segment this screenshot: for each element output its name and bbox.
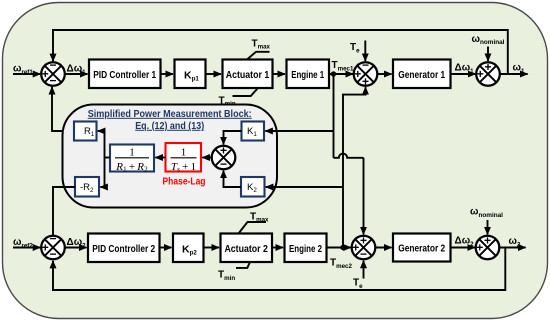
wire: bottom feedback line omega2 bbox=[53, 248, 505, 291]
block Engine 1 bbox=[287, 60, 330, 89]
svg-text:Actuator 2: Actuator 2 bbox=[224, 243, 268, 255]
wire: S4 to PID2 bbox=[65, 247, 87, 249]
wire: omega2 output bbox=[499, 247, 525, 249]
svg-text:+: + bbox=[42, 67, 49, 81]
wire: K1 to S5 bbox=[224, 131, 242, 144]
svg-text:−: − bbox=[360, 247, 367, 261]
svg-text:+: + bbox=[484, 234, 491, 248]
wire: S2 to Generator1 bbox=[377, 73, 391, 75]
wire: omega_ref1 input bbox=[13, 73, 40, 75]
wire: Tmec1 line L1 down bbox=[333, 74, 335, 158]
Tmin limit annotation actuator 1 bbox=[219, 88, 259, 108]
summing junction S5 bbox=[212, 144, 236, 171]
Tmax limit annotation actuator 1 bbox=[247, 39, 271, 60]
wire: split to R1 bbox=[98, 130, 105, 132]
svg-text:−: − bbox=[49, 74, 56, 88]
svg-text:+: + bbox=[360, 234, 367, 248]
Tmin limit annotation actuator 2 bbox=[218, 262, 250, 282]
wire: S1 to PID1 bbox=[65, 73, 88, 75]
svg-text:PID Controller 2: PID Controller 2 bbox=[92, 243, 155, 255]
svg-text:+: + bbox=[362, 75, 369, 89]
input omega_nominal bottom bbox=[470, 207, 503, 235]
wire: split to -R2 bbox=[100, 186, 104, 188]
node Tmec2 bbox=[340, 245, 345, 250]
wire: top feedback line omega1 bbox=[53, 30, 508, 74]
summing junction S6 bbox=[352, 234, 376, 261]
svg-text:+: + bbox=[477, 67, 484, 81]
wire: PID2 to Kp2 bbox=[160, 247, 172, 249]
svg-text:1: 1 bbox=[129, 146, 135, 158]
block Actuator 1 bbox=[223, 60, 273, 89]
wire: -R2 feedback to S4 top (no arrow) bbox=[53, 187, 75, 236]
svg-text:+: + bbox=[484, 60, 491, 74]
svg-text:R1 + R2: R1 + R2 bbox=[115, 161, 148, 174]
wire: Actuator1 to Engine1 bbox=[273, 73, 286, 75]
block PID Controller 2 bbox=[88, 234, 160, 263]
wire: L2 branch to K2 bbox=[266, 186, 343, 188]
wire: Generator1 to S3 bbox=[451, 73, 476, 75]
block Generator 1 bbox=[393, 60, 451, 89]
wire: L2 Tmec2 up to S2 bottom bbox=[343, 87, 366, 247]
svg-text:Generator 1: Generator 1 bbox=[398, 69, 445, 81]
summing junction S2 bbox=[354, 58, 378, 89]
wire: Engine2 to S6 with Tmec2 node bbox=[327, 247, 351, 249]
wire: Engine1 to S2 with Tmec1 node bbox=[329, 73, 353, 75]
svg-text:Eq. (12) and (13): Eq. (12) and (13) bbox=[135, 121, 204, 132]
wire: 1/(R1+R2) output split bbox=[105, 157, 111, 159]
measurement block container bbox=[63, 105, 278, 208]
input Te top bbox=[350, 41, 365, 62]
wire: phase lag to 1/(R1+R2) bbox=[155, 157, 165, 159]
wire: S6 to Generator2 bbox=[375, 247, 391, 249]
wire: R1 feedback to S1 bottom bbox=[52, 87, 74, 131]
block K1 bbox=[242, 122, 265, 141]
Tmax limit annotation actuator 2 bbox=[239, 212, 270, 234]
svg-text:+: + bbox=[352, 240, 359, 254]
block 1/(R1+R2) bbox=[110, 145, 154, 174]
wire: omega1 output bbox=[500, 73, 528, 75]
summing junction S7 bbox=[476, 234, 500, 260]
svg-text:Engine 1: Engine 1 bbox=[291, 69, 324, 81]
svg-text:PID Controller 1: PID Controller 1 bbox=[93, 69, 156, 81]
block phase lag 1/(Ts+1) bbox=[166, 143, 202, 174]
wire: Kp2 to Actuator2 bbox=[204, 247, 220, 249]
summing junction S1 bbox=[41, 58, 65, 88]
input omega_nominal top bbox=[472, 34, 505, 61]
block -R2 bbox=[75, 177, 99, 197]
wire: S5 to phase lag bbox=[202, 157, 211, 159]
svg-text:−: − bbox=[220, 157, 227, 171]
svg-text:Ts + 1: Ts + 1 bbox=[171, 161, 196, 174]
wire: omega_ref2 input bbox=[13, 247, 40, 249]
wire: Kp1 to Actuator1 bbox=[206, 73, 222, 75]
svg-text:Generator 2: Generator 2 bbox=[398, 242, 445, 254]
wire: Generator2 to S7 bbox=[451, 247, 475, 249]
svg-text:1: 1 bbox=[181, 146, 187, 158]
wire: L1 branch to K1 bbox=[265, 130, 333, 132]
block R1 bbox=[74, 122, 97, 141]
block PID Controller 1 bbox=[89, 60, 161, 89]
block Generator 2 bbox=[393, 234, 451, 262]
wire: Actuator2 to Engine2 bbox=[272, 247, 283, 249]
input Te bottom bbox=[353, 261, 364, 290]
svg-text:Simplified Power Measurement B: Simplified Power Measurement Block: bbox=[88, 109, 252, 120]
node Tmec1 bbox=[331, 71, 336, 76]
wire: L1 down to S6 top bbox=[363, 158, 365, 235]
svg-text:−: − bbox=[49, 247, 56, 261]
block Actuator 2 bbox=[221, 234, 273, 263]
block K2 bbox=[241, 177, 265, 197]
svg-text:Actuator 1: Actuator 1 bbox=[226, 69, 270, 81]
block Kp2 bbox=[173, 234, 204, 263]
svg-text:+: + bbox=[42, 240, 49, 254]
summing junction S3 bbox=[476, 60, 500, 86]
svg-text:+: + bbox=[476, 240, 483, 254]
wire: PID1 to Kp1 bbox=[161, 73, 174, 75]
svg-text:−: − bbox=[49, 58, 56, 72]
block Kp1 bbox=[175, 60, 206, 89]
summing junction S4 bbox=[41, 231, 65, 261]
wire: L1 horizontal with hop over L2 bbox=[334, 154, 364, 158]
block Engine 2 bbox=[285, 234, 327, 263]
svg-text:Engine 2: Engine 2 bbox=[289, 243, 322, 255]
wire: K2 to S5 bbox=[224, 171, 242, 187]
svg-text:+: + bbox=[354, 67, 361, 81]
svg-text:+: + bbox=[220, 144, 227, 158]
svg-text:Phase-Lag: Phase-Lag bbox=[163, 177, 206, 188]
